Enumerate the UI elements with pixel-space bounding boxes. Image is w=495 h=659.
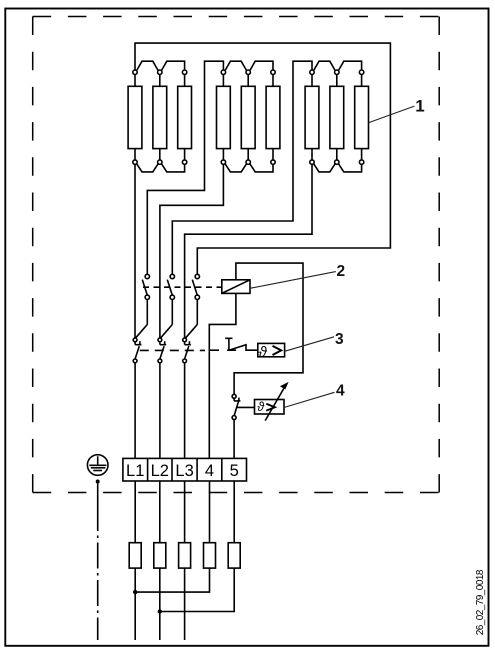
svg-text:4: 4 <box>205 462 214 480</box>
svg-text:26_02_79_0018: 26_02_79_0018 <box>475 569 486 635</box>
svg-text:3: 3 <box>335 331 344 348</box>
svg-text:ϑ: ϑ <box>259 344 268 361</box>
svg-text:L2: L2 <box>151 462 169 480</box>
svg-text:L1: L1 <box>126 462 144 480</box>
svg-text:2: 2 <box>337 263 346 280</box>
svg-text:L3: L3 <box>175 462 193 480</box>
svg-text:5: 5 <box>230 462 239 480</box>
svg-text:4: 4 <box>336 383 345 400</box>
svg-text:ϑ: ϑ <box>257 400 265 414</box>
svg-text:1: 1 <box>415 97 424 116</box>
